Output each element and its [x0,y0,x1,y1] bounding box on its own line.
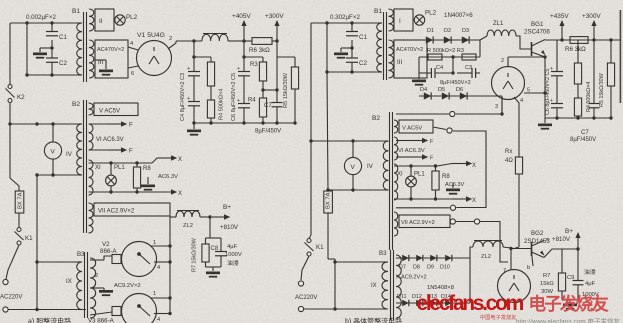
wire: doubler top row (b) [420,28,480,40]
transformer B1 winding II [89,9,116,31]
diode D14 [445,300,452,306]
wire: Rx to node (b) [514,247,519,249]
label 1N5408 x8 [427,285,454,291]
ground: C1/C2 midpoint (b) [334,40,354,59]
arrow B+ output (a) [212,204,239,231]
diode D4 [424,92,431,99]
svg-text:D3: D3 [462,28,469,34]
svg-text:X AC9.2V×2: X AC9.2V×2 [396,275,427,281]
transformer B3 primary (b) [333,260,388,309]
terminal: bus circle 1 [450,111,455,116]
terminal: AC220V neutral [3,307,8,312]
resistor R4 lower (b) [574,82,592,118]
svg-text:C3: C3 [465,65,472,71]
svg-text:BX 7A: BX 7A [18,192,24,209]
watermark small red text [480,313,516,321]
transformer B1 core (b) [384,12,387,80]
svg-text:+300V: +300V [265,13,284,20]
svg-text:R6 3kΩ: R6 3kΩ [565,46,586,53]
switch K2 [6,85,26,103]
svg-text:AC6.3V: AC6.3V [445,182,465,188]
svg-text:ZL2: ZL2 [481,254,491,260]
svg-text:K1: K1 [316,244,324,251]
svg-text:+435V: +435V [550,13,569,20]
svg-text:XI: XI [397,172,403,178]
wire: secondary top tap (a) [90,256,112,279]
svg-text:ZL1: ZL1 [493,21,504,27]
terminal: bus circle 2 [447,128,452,133]
svg-text:+: + [237,66,240,72]
lamp PL1 (a) [106,163,126,192]
label AC220V input (a) [0,295,22,301]
svg-text:R7 15kΩ/30W: R7 15kΩ/30W [192,237,198,272]
resistor R7 (b) [540,249,566,300]
svg-text:PL2: PL2 [425,10,437,17]
capacitor C6 (a) [237,57,250,76]
capacitor C8 [211,238,242,267]
svg-text:PL1: PL1 [114,165,125,171]
svg-text:+: + [187,96,190,102]
svg-text:ZL2: ZL2 [183,223,193,229]
wire: V1 cathode pin 2 to rail [168,36,176,49]
svg-text:C1: C1 [359,34,367,41]
diode D7 [402,255,409,261]
label B3 (a) [77,251,85,258]
svg-text:R8: R8 [442,174,450,180]
svg-text:D7: D7 [399,265,406,271]
diode D9 [430,255,437,261]
svg-text:2: 2 [501,58,504,64]
node: regulator input (b) [509,247,512,250]
wire: cap bottom run (b) [325,70,378,73]
power arrow +435V [550,13,569,40]
svg-text:K2: K2 [17,94,25,101]
choke ZL2 (a) [170,211,212,230]
svg-text:b: b [527,265,530,271]
transistor BG2 2SD1453 [511,230,578,271]
label 8uF/450V [255,129,281,135]
wire: V3 pin4 (a) [154,312,172,323]
wire: R3/C7 link [263,89,277,91]
svg-text:X: X [178,191,182,197]
svg-text:B3: B3 [77,251,85,258]
terminal: VII circle a [450,219,455,224]
node: +405V tap [242,39,245,42]
svg-text:1N5408×8: 1N5408×8 [427,285,454,291]
wire: bottom mains run [8,308,86,311]
transformer B1 winding III AC470Vx2 [89,40,128,78]
resistor R7 (a) [192,237,210,272]
svg-text:V2: V2 [102,241,110,248]
resistor R6 (b) [565,37,588,53]
label B2 (a) [72,101,80,108]
svg-text:2: 2 [169,36,172,42]
svg-text:VI AC6.3V: VI AC6.3V [398,148,425,154]
svg-text:1N4007×6: 1N4007×6 [444,12,473,19]
series tube (b) [498,268,531,303]
svg-text:B+: B+ [223,204,231,211]
svg-text:2SC4706: 2SC4706 [524,29,550,36]
svg-text:C7: C7 [264,103,272,109]
lamp PL1 (b) [406,166,426,199]
svg-text:AC470V×2: AC470V×2 [97,47,124,53]
svg-text:V1 5U4G: V1 5U4G [137,32,165,39]
svg-text:8µF/450V: 8µF/450V [255,129,281,135]
svg-text:C2: C2 [359,60,367,67]
arrow F upper (a) [89,121,134,128]
svg-text:R6 3kΩ: R6 3kΩ [249,47,270,54]
diode D12 [416,300,423,306]
svg-text:R4: R4 [248,98,256,104]
choke L1 filter [202,34,244,42]
svg-text:B3: B3 [379,250,387,257]
transformer B3 core (b) [391,250,394,320]
svg-text:B+: B+ [565,228,573,235]
ground: heater tap (b) [445,182,465,195]
wire: HV diode row 1 (b) [396,258,470,271]
svg-text:F: F [129,123,133,129]
wire: secondary bottom tap (a) [90,312,112,315]
svg-text:Rx: Rx [505,149,512,155]
terminal: AC220V phase (b) [298,281,303,286]
svg-text:R5 15kΩ/30W: R5 15kΩ/30W [283,72,289,108]
resistor R4 bleeder pair [207,57,224,123]
terminal: AC220V neutral (b) [298,306,303,311]
svg-text:e: e [546,237,549,243]
terminal: VII circle b [456,219,480,224]
transistor BG1 2SC4706 [524,21,550,57]
scan border right edge [619,10,621,103]
label 0.002uF x2 [26,14,56,21]
rectifier tube V1 5U4G [137,32,172,76]
wire: neutral riser [36,175,38,310]
caption (b) [345,317,402,323]
ground: doubler (b) [412,73,471,86]
resistor R4 upper (b) [574,40,581,98]
svg-text:B2: B2 [72,101,80,108]
transformer B1 primary I [76,23,82,75]
capacitor C7 (b) [570,40,600,143]
svg-text:BX 7A: BX 7A [326,192,332,209]
ground: B3 center tap (a) [90,283,141,296]
voltmeter V [44,124,61,175]
transformer B2 winding VII (b) [394,212,450,236]
resistor R6 (a) [244,38,277,54]
node: B+ (b) [576,247,579,250]
wire: right mains rail [309,23,312,235]
svg-text:4µF: 4µF [227,244,238,250]
transformer B2 winding XI [89,160,102,195]
transformer B3 secondary (a) [90,258,96,318]
capacitor C5 (b) [545,69,563,118]
transformer B3 secondary (b) [396,255,401,318]
diode D13 [430,300,437,306]
power arrow +300V (b) [582,13,601,40]
svg-text:4Ω: 4Ω [505,158,513,164]
svg-text:AC220V: AC220V [0,295,22,301]
wire: doubler bottom row (b) [419,87,502,96]
label B1 (b) [374,8,382,15]
svg-text:8µF/450V: 8µF/450V [570,137,596,143]
wire: tube pin 3 (b) [495,96,502,114]
svg-text:V AC5V: V AC5V [99,109,120,115]
arrow F upper (b) [396,138,434,145]
svg-text:1: 1 [153,240,156,246]
voltmeter wires [10,122,79,176]
resistor R3 (a) [250,57,267,98]
svg-text:R5 15kΩ/30W: R5 15kΩ/30W [599,72,605,107]
svg-text:4µF: 4µF [585,281,596,287]
wire: +300V column [275,41,295,92]
diode D3 [462,36,469,43]
svg-text:V3 866-A: V3 866-A [88,318,115,323]
svg-text:7: 7 [503,268,506,274]
label 1N4007 x6 [444,12,473,19]
svg-text:D1: D1 [427,28,434,34]
wire: +405V filter column [242,41,263,59]
label 0.302uF x2 [330,14,360,21]
svg-text:+: + [187,66,190,72]
transformer B3 core (a) [85,252,88,318]
lamp PL2 (a) [115,14,138,25]
svg-text:VII AC2.9V×2: VII AC2.9V×2 [401,220,435,226]
transformer B2 winding VII AC2.9Vx2 [89,203,171,233]
diode D11 [402,300,409,306]
svg-text:4: 4 [157,265,160,271]
svg-text:IX: IX [371,283,377,289]
svg-text:D8: D8 [413,265,420,271]
wire: B+ top rail (a) [176,39,202,42]
resistor R8 (a) [133,163,151,192]
wire: cap row (b) [419,57,480,75]
fuse BX 7A (b) [324,191,335,309]
capacitor C2 [46,58,67,75]
svg-text:elecfans.com: elecfans.com [417,292,524,315]
terminal: bus circle 3 [450,205,455,210]
transformer B2 winding V AC5V [89,103,139,116]
wire: top rail to B1 (b) [311,21,378,24]
svg-text:IX: IX [66,278,72,285]
rectifier tube V1 (b) [492,57,525,100]
resistor R5 bleeder (a) [283,57,299,123]
svg-text:D2: D2 [444,28,451,34]
svg-text:AC220V: AC220V [295,295,317,301]
voltmeter wires (b) [311,139,385,191]
node: +300V tap [275,39,278,42]
wire: filter column feed [192,41,211,59]
svg-text:IV: IV [367,163,374,170]
fuse BX 7A [15,191,24,228]
svg-text:R8: R8 [143,166,151,172]
transformer B3 primary IX (a) [35,260,82,309]
resistor R5 (b) [599,40,615,118]
wire: pilot row top (b) [394,164,437,167]
svg-text:X: X [472,163,476,169]
wire: plate lead pin 6 [128,66,138,77]
lamp PL2 (b) [414,10,436,26]
wire: V2 pin4 (a) [154,260,172,271]
terminal: AC220V phase [3,279,8,284]
svg-text:0.302µF×2: 0.302µF×2 [330,14,360,21]
svg-text:+300V: +300V [582,13,601,20]
transformer B1 core [84,12,87,82]
wire: regulated rail (b) [545,38,620,41]
wire: heater loop left (b) [396,207,450,209]
svg-text:油浸: 油浸 [227,259,239,267]
wire: node to series tube (b) [510,249,512,271]
wire: V2 pin1 (a) [150,240,172,248]
svg-text:X: X [178,157,182,163]
caption (a) [28,317,71,323]
diode D8 [416,255,423,261]
svg-text:C6 8µF/450V×2 C5: C6 8µF/450V×2 C5 [545,69,551,115]
svg-text:1: 1 [153,291,156,297]
wire: cap bottom run [25,73,76,76]
watermark elecfans.com [417,292,524,315]
svg-text:K1: K1 [25,235,33,242]
power arrow B+ +810V [552,228,581,248]
wire: heater feed to tube (b) [480,222,508,263]
svg-text:+405V: +405V [232,13,251,20]
svg-text:D6: D6 [456,87,463,93]
ground: heater tap (a) [141,174,178,191]
transformer B2 winding VI (b) [394,137,425,160]
svg-text:0.002µF×2: 0.002µF×2 [26,14,56,21]
wire: tube pin 5 (b) [524,88,545,94]
capacitor C3 [187,57,200,76]
label B3 (b) [379,250,387,257]
wire: left mains top rail [10,23,19,191]
capacitor C4 (b) [431,65,443,78]
wire: filter cap branch [26,23,28,75]
svg-text:15kΩ: 15kΩ [540,281,554,287]
svg-text:C4 8µF/450V×2 C3: C4 8µF/450V×2 C3 [180,73,186,121]
wire: tube pin 4 (b) [514,97,523,155]
arrow X upper (a) [152,155,182,163]
svg-text:C6 8µF/450V×2 C5: C6 8µF/450V×2 C5 [231,73,237,121]
svg-text:中国电子发烧友: 中国电子发烧友 [480,313,516,321]
node: mains junction [8,122,11,125]
arrow F lower (a) [89,147,134,154]
arrow X upper (b) [437,161,476,169]
svg-text:电子发烧友: 电子发烧友 [529,294,610,314]
svg-text:BG2: BG2 [531,230,544,237]
wire: top rail to B1 [10,21,76,24]
ground: C1/C2 midpoint [33,40,54,59]
svg-text:R4 500kΩ×4: R4 500kΩ×4 [219,89,225,120]
wire: HV diode row 2 (b) [396,258,470,303]
transformer B2 winding XI (b) [394,164,403,200]
diode D6 [460,92,467,99]
voltmeter V (b) [344,141,361,190]
ground: output filter (b) [562,300,578,310]
transformer B2 winding V (b) [394,120,446,133]
svg-text:R7: R7 [543,273,550,279]
svg-text:F: F [129,149,133,155]
wire: emitter drop (b) [508,55,547,118]
transformer B2 winding VI AC6.3V [89,124,124,150]
capacitor C7 (a) [264,90,283,123]
capacitor C1 (b) [346,23,367,41]
svg-text:C4: C4 [436,65,443,71]
capacitor C6 (b) [550,40,563,76]
svg-text:+810V: +810V [220,224,239,231]
transformer B2 primary IV [66,124,82,175]
svg-text:PL2: PL2 [126,14,138,21]
resistor R3 equalizer [462,54,476,60]
wire: rows join (b) [479,40,481,57]
wire: to AC terminal 1 [6,245,19,279]
capacitor C9 [567,249,599,300]
wire: pilot row bottom (b) [394,197,452,200]
arrow F lower (b) [396,154,434,161]
svg-text:X: X [472,198,476,204]
svg-text:C1: C1 [59,34,67,41]
wire: V3 pin1 (a) [150,291,172,300]
svg-text:IV: IV [66,151,73,158]
svg-text:D9: D9 [427,265,434,271]
power arrow +405V [232,13,251,41]
choke ZL2 (b) [470,241,511,261]
ground: filter common (b) [538,118,552,130]
svg-text:5: 5 [527,88,530,94]
wire: pilot row top (a) [89,161,153,164]
capacitor C5 (a) [231,73,250,123]
svg-text:D5: D5 [438,87,445,93]
svg-text:R3: R3 [250,62,258,68]
svg-text:V: V [51,149,56,156]
resistor R4 lower (a) [248,98,267,124]
svg-text:AC470V×2: AC470V×2 [396,47,423,53]
ground: filter common (a) [187,123,201,136]
mercury rectifier V3 866-A [88,294,157,323]
svg-text:B1: B1 [72,8,80,15]
svg-text:PL1: PL1 [414,172,425,178]
diode D2 [444,36,451,43]
svg-text:4: 4 [520,98,523,104]
watermark url gray [516,317,621,323]
arrow X lower (b) [452,196,476,204]
diode D10 [445,255,452,261]
ground: winding III center tap [95,60,113,76]
capacitor C2 (b) [346,58,367,72]
svg-text:油浸: 油浸 [584,268,596,276]
resistor R8 (b) [432,166,450,199]
wire: anode rail (a) [169,216,171,314]
svg-text:III: III [397,59,402,66]
wire: filter bottom rail (b) [545,116,613,119]
transformer B2 core [84,100,87,233]
wire: filter bottom rail (a) [192,121,296,124]
svg-text:V: V [351,164,356,171]
svg-text:D11: D11 [397,294,407,300]
switch K1 (b) [301,235,324,280]
wire: equalizer row (b) [419,48,480,59]
transformer B1 winding III (b) [389,40,428,78]
svg-text:2: 2 [95,273,98,279]
svg-text:6: 6 [131,71,134,77]
capacitor C3 (b) [465,65,476,78]
svg-text:D10: D10 [440,265,450,271]
ground: output filter (a) [206,267,222,278]
label B2 (b) [372,115,380,122]
diode D1 [426,36,433,43]
transformer B2 primary IV (b) [367,141,389,190]
svg-text:C8: C8 [211,246,219,252]
wire: heater loop (b) [453,131,486,208]
watermark chinese characters [529,294,610,314]
svg-text:C9: C9 [567,275,574,281]
